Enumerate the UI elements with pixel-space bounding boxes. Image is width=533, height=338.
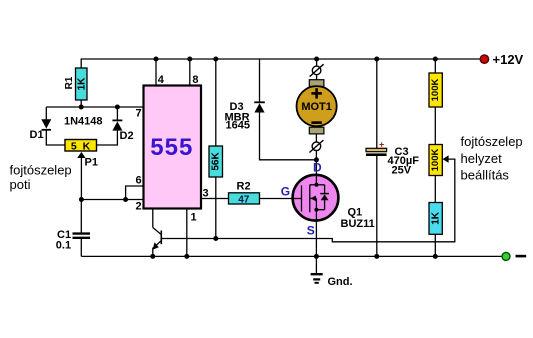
trimmer arrow	[443, 155, 449, 163]
resistor 100K lower (position sensor)	[429, 145, 442, 176]
svg-text:1N4148: 1N4148	[64, 116, 103, 128]
motor terminal bottom	[309, 127, 324, 134]
wire P1 wiper stem	[80, 158, 82, 200]
capacitor C3 470uF 25V	[366, 140, 419, 177]
svg-text:5 K: 5 K	[71, 140, 92, 152]
diode D2 1N4148	[112, 120, 133, 142]
svg-text:fojtószelep: fojtószelep	[10, 163, 72, 178]
motor terminal top	[309, 80, 324, 87]
wire C1 top	[80, 200, 82, 233]
svg-text:1K: 1K	[76, 77, 87, 91]
diode D1 1N4148	[30, 119, 52, 141]
wire C1 bottom	[80, 239, 82, 256]
wire 1K bottom	[434, 234, 436, 256]
wire bottom ground rail	[81, 255, 502, 257]
wire R1 bottom	[80, 100, 82, 107]
wire pin8	[189, 59, 191, 86]
IC U1 555 timer	[144, 86, 202, 209]
ground symbol	[311, 256, 323, 282]
junction dot 56K-base net	[213, 236, 218, 241]
svg-text:47: 47	[238, 194, 250, 205]
svg-text:2: 2	[136, 201, 142, 213]
svg-text:555: 555	[150, 134, 193, 161]
MOSFET Q1 BUZ11	[293, 175, 339, 221]
svg-text:beállítás: beállítás	[461, 168, 510, 183]
wire drain	[315, 160, 317, 175]
wire 100K1 to 100K2	[434, 107, 436, 145]
wire motor top from rail	[316, 59, 318, 66]
wire connector2 to drain node	[315, 151, 317, 160]
junction dot drain node	[314, 157, 319, 162]
svg-text:1: 1	[191, 212, 197, 224]
svg-text:S: S	[307, 224, 315, 238]
wire source to rail	[315, 221, 317, 257]
svg-text:Q1: Q1	[348, 207, 363, 219]
wire D3 bottom to motor node	[260, 112, 317, 159]
junction dots pin7 net	[79, 105, 84, 110]
svg-text:P1: P1	[85, 156, 98, 168]
terminal +12V	[480, 52, 523, 67]
junction dots pin2 net	[79, 197, 84, 202]
svg-text:MOT1: MOT1	[301, 101, 332, 113]
svg-text:fojtószelep: fojtószelep	[461, 134, 523, 149]
wire terminal2 to connector2	[315, 134, 317, 142]
wire connector1 to terminal1	[316, 75, 318, 80]
svg-text:56K: 56K	[211, 152, 222, 171]
wire D2 branch	[116, 107, 118, 120]
potentiometer P1 5K	[65, 140, 98, 169]
svg-text:1K: 1K	[430, 211, 441, 225]
svg-text:R1: R1	[64, 76, 75, 89]
capacitor C1 0.1	[56, 229, 90, 252]
resistor 56K	[209, 146, 223, 177]
wire C3 top	[376, 59, 378, 148]
wire R2 to gate	[260, 198, 293, 200]
svg-text:7: 7	[136, 108, 142, 120]
svg-text:3: 3	[203, 188, 209, 200]
svg-text:25V: 25V	[392, 165, 412, 177]
resistor 100K upper	[429, 73, 442, 107]
motor connector bottom (circle-slash)	[309, 140, 323, 152]
junction dots top rail	[154, 57, 159, 62]
svg-text:1645: 1645	[226, 120, 250, 132]
wire C3 bottom	[376, 156, 378, 257]
svg-text:0.1: 0.1	[56, 240, 71, 252]
resistor R1	[64, 68, 88, 100]
wire pin3 to R2	[201, 198, 229, 200]
wire pin2 net	[81, 199, 143, 201]
wire 100K top	[434, 59, 436, 73]
svg-text:100K: 100K	[430, 149, 441, 172]
svg-text:BUZ11: BUZ11	[341, 218, 375, 230]
wire 56K bottom	[215, 177, 217, 239]
svg-text:8: 8	[192, 74, 198, 86]
resistor R2 47	[229, 181, 260, 206]
wire D1 branch	[45, 107, 47, 120]
wire pin7 net (D1/D2 top wire)	[46, 106, 143, 108]
diode D3 MBR1645	[225, 101, 265, 132]
transistor Q internal discharge	[153, 209, 162, 257]
svg-text:D: D	[313, 161, 322, 175]
wire 100K2 to 1K	[434, 176, 436, 203]
svg-text:G: G	[281, 185, 290, 199]
svg-text:helyzet: helyzet	[461, 151, 503, 166]
motor connector top (circle-slash)	[310, 64, 324, 76]
wire D3 top	[259, 59, 261, 102]
wire pin4	[155, 59, 157, 86]
svg-text:poti: poti	[10, 177, 31, 192]
motor MOT1	[297, 86, 337, 126]
svg-text:Gnd.: Gnd.	[328, 276, 353, 288]
svg-text:D2: D2	[120, 130, 134, 142]
wire pin1	[186, 209, 188, 257]
svg-text:D1: D1	[30, 129, 44, 141]
svg-text:R2: R2	[237, 181, 251, 193]
svg-text:100K: 100K	[430, 79, 441, 102]
wire transistor base net from 56K to trimmer arrow	[161, 159, 455, 242]
svg-text:+: +	[379, 140, 384, 150]
svg-text:4: 4	[158, 74, 165, 86]
wire R1 top	[80, 58, 82, 68]
svg-text:+12V: +12V	[493, 52, 524, 67]
junction dots bottom rail	[150, 254, 155, 259]
resistor 1K lower	[429, 203, 442, 235]
wire top rail +12V	[81, 58, 481, 60]
wire 56K top	[215, 59, 217, 146]
svg-text:6: 6	[136, 175, 142, 187]
terminal ground (green)	[502, 252, 526, 260]
wire pin6 jumper	[126, 186, 144, 200]
